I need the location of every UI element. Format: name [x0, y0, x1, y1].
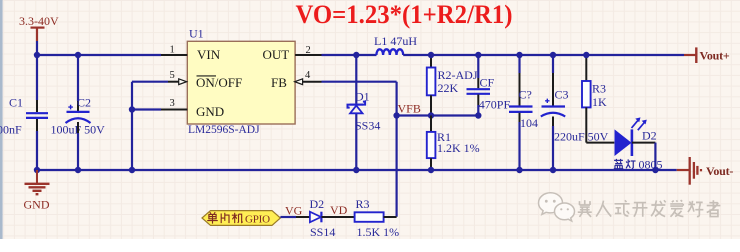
wire C2 branch upper [77, 55, 79, 101]
svg-text:22K: 22K [438, 81, 459, 95]
svg-text:D1: D1 [355, 89, 370, 103]
svg-text:1.5K 1%: 1.5K 1% [357, 225, 400, 239]
svg-text:FB: FB [271, 75, 287, 90]
svg-text:1K: 1K [592, 95, 607, 109]
resistor R1 [430, 116, 432, 132]
svg-text:GND: GND [24, 197, 50, 211]
svg-text:C3: C3 [555, 88, 569, 102]
svg-text:GPIO: GPIO [245, 213, 270, 225]
pin 1 [161, 54, 187, 56]
svg-text:3.3-40V: 3.3-40V [19, 14, 59, 28]
svg-text:C1: C1 [9, 96, 23, 110]
wire D2 to R3 [321, 216, 354, 218]
node VFB [393, 112, 399, 118]
svg-text:R3: R3 [356, 197, 370, 211]
power port Vout+ [684, 54, 696, 56]
pin 4 with input arrow [303, 81, 322, 83]
capacitor C1 [26, 113, 48, 118]
wire FB vertical (down to R3 row) [396, 82, 398, 217]
svg-text:R3: R3 [592, 82, 606, 96]
port MCU GPIO [202, 211, 280, 226]
svg-text:104: 104 [520, 116, 538, 130]
svg-text:Vout-: Vout- [706, 164, 733, 178]
pin 2 [295, 54, 321, 56]
inductor L1 [376, 49, 403, 55]
capacitor C2 (polarized) [66, 112, 91, 123]
svg-text:VFB: VFB [398, 101, 421, 115]
svg-text:L1 47uH: L1 47uH [374, 34, 417, 48]
wire GPIO to D2 [280, 216, 296, 218]
resistor R2-ADJ [430, 55, 432, 68]
svg-text:D2: D2 [642, 129, 657, 143]
wire vertical to ground rail [131, 82, 133, 170]
wire FB pin4 to corner [322, 81, 397, 83]
svg-text:4: 4 [305, 70, 311, 81]
LED D2 [615, 129, 632, 156]
capacitor C? [518, 55, 520, 73]
wire OUT to L1 [322, 54, 377, 56]
node ground rail junctions [34, 167, 40, 173]
svg-text:CF: CF [480, 75, 495, 89]
diode D2 SS14 [310, 212, 321, 223]
node pin3 junction [129, 106, 135, 112]
node VIN junctions [34, 52, 40, 58]
IC U1 LM2596S-ADJ [187, 41, 295, 124]
ground [25, 170, 50, 194]
capacitor CF [477, 55, 479, 78]
U1 pin names [196, 47, 289, 119]
wire from power to rail [36, 41, 38, 55]
svg-text:1.2K 1%: 1.2K 1% [437, 141, 480, 155]
watermark logo (WeChat) [539, 193, 575, 221]
wire VFB horizontal [397, 114, 479, 116]
svg-text:GND: GND [196, 104, 224, 119]
svg-text:VD: VD [330, 203, 348, 217]
diode D1 (schottky) [348, 102, 366, 108]
svg-text:SS34: SS34 [355, 118, 380, 132]
wire ON/OFF net [132, 81, 168, 83]
svg-text:VG: VG [285, 203, 303, 217]
wire C1 branch upper [36, 55, 38, 100]
capacitor C3 (polarized) [552, 55, 554, 73]
pin 5 with input arrow [168, 81, 179, 83]
power port 3.3-40V [31, 28, 45, 41]
svg-text:OUT: OUT [263, 47, 290, 62]
svg-text:SS14: SS14 [310, 225, 335, 239]
svg-text:LM2596S-ADJ: LM2596S-ADJ [188, 124, 260, 136]
svg-text:220uF 50V: 220uF 50V [554, 130, 609, 144]
svg-text:U1: U1 [189, 27, 204, 41]
wire D1 branch [355, 55, 357, 104]
svg-text:2: 2 [306, 45, 311, 56]
resistor R3 1.5K [355, 212, 384, 222]
resistor R3 1K [585, 55, 587, 81]
watermark text (8 CJK glyph shapes) [578, 200, 721, 217]
svg-text:470PF: 470PF [479, 97, 511, 111]
svg-text:VO=1.23*(1+R2/R1): VO=1.23*(1+R2/R1) [296, 0, 513, 29]
node D1 top [353, 52, 359, 58]
svg-text:Vout+: Vout+ [700, 48, 730, 62]
wire LED cathode [632, 142, 656, 144]
pin 3 [161, 109, 187, 111]
svg-text:ON/OFF: ON/OFF [196, 75, 242, 90]
svg-text:1: 1 [170, 45, 175, 56]
svg-text:100nF: 100nF [0, 123, 22, 137]
svg-text:D2: D2 [310, 197, 325, 211]
wire pin3 to vertical [132, 108, 161, 110]
svg-text:C?: C? [519, 88, 532, 102]
label blue-LED 0805 [614, 159, 636, 169]
wire C2 branch lower [77, 122, 79, 133]
svg-text:VIN: VIN [197, 47, 221, 62]
power port Vout- [677, 169, 690, 171]
wire R3 to LED anode [586, 142, 614, 144]
ground rail [37, 169, 677, 171]
svg-text:5: 5 [170, 70, 175, 81]
wire VIN rail [37, 54, 161, 56]
wire C1 branch lower [36, 119, 38, 131]
wire OUT rail right [403, 54, 684, 56]
svg-text:C2: C2 [77, 96, 91, 110]
svg-text:3: 3 [170, 98, 175, 109]
wire R3 to FB vertical [384, 216, 397, 218]
